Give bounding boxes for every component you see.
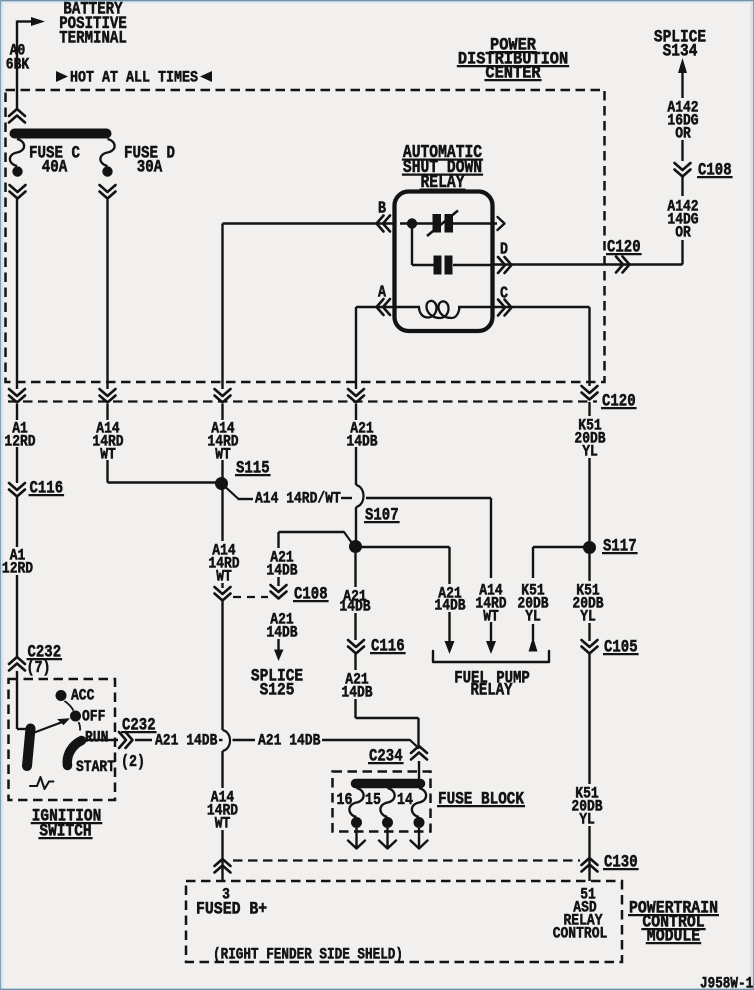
relay contact 2 — [412, 256, 493, 275]
label A21 14DB above corner — [341, 671, 372, 701]
wire A14 to PCM — [221, 830, 223, 881]
label A21 14DB main — [346, 420, 377, 450]
svg-text:TERMINAL: TERMINAL — [59, 28, 127, 48]
svg-text:(2): (2) — [121, 752, 145, 772]
fuel pump relay — [433, 651, 549, 700]
label A142 14DG OR — [667, 198, 698, 241]
relay pin D — [498, 242, 512, 273]
label A14 14RD WT col3 — [207, 420, 238, 463]
wire to S115 dot — [221, 460, 223, 478]
svg-text:14: 14 — [397, 790, 413, 810]
svg-text:A21 14DB: A21 14DB — [155, 732, 218, 749]
svg-text:14DB: 14DB — [266, 624, 297, 641]
wire K51 to S117 — [588, 458, 590, 541]
label A21 14DB run2 — [258, 732, 321, 749]
label K51 20DB YL upper — [574, 417, 605, 460]
bus bar — [15, 129, 107, 139]
splice S107 — [349, 505, 400, 553]
ignition switch OFF contact — [70, 708, 105, 730]
connector C232 (7) — [9, 642, 62, 677]
net label HOT AT ALL TIMES — [56, 70, 212, 87]
svg-text:HOT AT ALL TIMES: HOT AT ALL TIMES — [70, 70, 198, 87]
wire A14 fuse D label gap — [106, 404, 108, 420]
svg-text:YL: YL — [525, 608, 541, 625]
label A14 14RD WT below S115 — [208, 542, 239, 585]
connector chevron A14 relay B at C120 — [215, 389, 231, 403]
splice S134 arrow — [654, 27, 706, 73]
wire A21 corner to C234 — [356, 654, 419, 747]
splice S117 — [583, 536, 638, 556]
connector chevron A1 at C120 — [9, 389, 25, 403]
ignition switch detent spring — [30, 777, 54, 789]
svg-text:J958W-1: J958W-1 — [700, 975, 753, 990]
label A14 14RD WT col2 — [92, 420, 123, 463]
svg-text:A21 14DB: A21 14DB — [258, 732, 321, 749]
wire A0 6BK from battery — [16, 21, 18, 110]
wire K51 to C105 — [588, 623, 590, 641]
wire S107 left branch — [279, 532, 353, 548]
svg-text:RUN: RUN — [85, 729, 108, 746]
wire C234 to fuse block — [418, 761, 420, 780]
connector C116 — [9, 478, 64, 498]
wire A21 to hop — [355, 447, 357, 485]
label K51 20DB YL lower — [571, 785, 602, 828]
svg-text:(RIGHT FENDER SIDE SHELD): (RIGHT FENDER SIDE SHELD) — [213, 946, 403, 963]
label A21 14DB fp — [434, 585, 465, 614]
svg-text:14DB: 14DB — [346, 433, 377, 450]
wire A1 12RD upper — [16, 404, 18, 420]
label A21 14DB s125 upper — [266, 549, 297, 579]
label K51 20DB YL mid — [572, 582, 603, 625]
ignition switch RUN contact — [85, 729, 108, 746]
splice S125 arrow — [251, 639, 303, 700]
wire A14 below hop — [221, 751, 223, 788]
svg-text:OR: OR — [675, 125, 691, 142]
wire A142 14DG OR — [681, 177, 683, 265]
label J958W-1 — [700, 975, 753, 990]
wire A14 14RD/WT continues — [341, 497, 491, 499]
ignition switch START bar — [67, 741, 115, 777]
label A21 14DB run1 — [155, 732, 218, 749]
label A21 14DB s125 lower — [266, 611, 297, 641]
wire below C116 — [354, 613, 356, 640]
fuse D 30A — [100, 139, 176, 199]
svg-text:FUSED B+: FUSED B+ — [196, 899, 267, 919]
connector C108 chevron left — [215, 587, 231, 601]
connector C232 (2) — [119, 715, 157, 771]
connector chevron A14 into PCM — [215, 859, 231, 873]
connector C108 dashed link — [233, 596, 268, 598]
svg-text:40A: 40A — [42, 157, 68, 177]
wire relay B label gap — [221, 404, 223, 420]
label A142 16DG OR — [667, 99, 698, 142]
wire S107 to fuel pump relay — [361, 547, 450, 584]
label A14 14RD WT lower — [207, 789, 238, 832]
svg-text:ACC: ACC — [71, 687, 95, 704]
wire A142 16DG OR — [681, 73, 683, 161]
label RIGHT FENDER SIDE SHELD — [213, 946, 403, 963]
wire K51 upper gap — [588, 402, 590, 416]
wire fuse D to S115 — [108, 460, 217, 483]
svg-text:RELAY: RELAY — [471, 680, 513, 700]
wire S117 left branch — [533, 547, 590, 578]
label A0 6BK — [6, 42, 30, 73]
wire relay pin C to C120 — [493, 307, 590, 386]
wire A21 label gap — [355, 404, 357, 420]
relay pin A — [377, 285, 391, 315]
wire A14 branch down — [490, 498, 492, 578]
svg-text:30A: 30A — [137, 157, 163, 177]
label A1 12RD lower — [2, 547, 33, 577]
label A14 14RD WT fp — [475, 582, 506, 625]
wire fuse D down — [106, 198, 108, 389]
ignition switch rotor bar — [27, 729, 31, 767]
wire K51 to C130 — [588, 826, 590, 881]
arrow K51 from fuel pump relay — [529, 624, 538, 652]
wire A1 below C116 — [16, 497, 18, 547]
svg-text:S134: S134 — [663, 41, 698, 61]
svg-text:14DB: 14DB — [341, 684, 372, 701]
ground arrow fuse 15 — [379, 828, 396, 849]
wire A14 14RD/WT branch — [227, 488, 254, 499]
svg-text:15: 15 — [365, 790, 381, 810]
ignition switch ACC contact — [56, 687, 95, 710]
connector C234 — [368, 746, 427, 766]
wire to C108 s125 — [277, 577, 279, 586]
svg-text:12RD: 12RD — [4, 433, 35, 450]
wire K51 long — [588, 654, 590, 784]
wire A1 to C116 — [16, 447, 18, 483]
svg-text:START: START — [76, 759, 115, 776]
svg-text:A14 14RD/WT: A14 14RD/WT — [255, 490, 341, 507]
connector chevron A14 fuse D at C120 — [100, 389, 116, 403]
svg-text:OR: OR — [675, 224, 691, 241]
pin 3 FUSED B+ — [196, 886, 267, 919]
wire to C108 — [221, 583, 223, 588]
powertrain control module box — [186, 881, 622, 962]
svg-text:OFF: OFF — [82, 708, 105, 725]
wire relay pin D to C120 right — [493, 263, 683, 265]
wire S117 down — [588, 554, 590, 581]
hop over A14 branch — [356, 485, 364, 507]
fuse 14 — [397, 788, 426, 828]
svg-text:14DB: 14DB — [266, 562, 297, 579]
label IGNITION SWITCH — [31, 806, 103, 841]
wire run to C234 — [322, 740, 419, 748]
fuse C 40A — [10, 139, 81, 199]
hop over A21 run wire — [223, 730, 231, 751]
connector C130 — [582, 852, 639, 872]
svg-text:6BK: 6BK — [6, 56, 30, 73]
connector C108 — [271, 584, 329, 604]
splice S115 — [215, 458, 271, 490]
label A1 12RD — [4, 420, 35, 450]
ignition switch wiper arrow — [33, 718, 70, 733]
fuse block box — [333, 772, 431, 832]
connector row C120 dashed line — [8, 391, 637, 411]
wire fuse C to C120 boundary — [16, 198, 18, 389]
connector chevron K51 at C120 — [582, 386, 598, 400]
arrow A14 into fuel pump relay — [486, 622, 496, 654]
svg-text:(7): (7) — [27, 658, 51, 678]
wire S107 down — [354, 553, 356, 587]
wire A21 to S107 — [355, 507, 357, 541]
label A14 14RD/WT — [255, 490, 341, 507]
relay ASD automatic shut down — [395, 142, 493, 331]
fuse 16 — [337, 788, 364, 828]
label POWERTRAIN CONTROL MODULE — [628, 898, 719, 946]
connector chevron battery feed — [9, 109, 25, 123]
wire PDC to relay pin A — [356, 307, 394, 389]
label POWER DISTRIBUTION CENTER — [457, 35, 569, 83]
label FUSE BLOCK — [437, 789, 525, 809]
svg-text:CONTROL: CONTROL — [553, 925, 608, 942]
wire PDC to relay pin B — [223, 224, 395, 390]
label K51 20DB YL fp — [517, 582, 548, 625]
arrow A21 into fuel pump relay — [445, 612, 455, 654]
wire A1 to C232 — [16, 575, 18, 658]
power distribution center box — [6, 90, 605, 382]
connector C108 right — [675, 160, 733, 180]
connector C105 — [582, 637, 639, 657]
node battery positive terminal — [17, 0, 127, 48]
relay coil — [395, 301, 493, 318]
fuse block bus bar — [356, 779, 421, 789]
relay pin B — [377, 201, 391, 232]
wire S115 down — [221, 489, 223, 541]
wire RUN contact out — [80, 739, 118, 741]
ignition switch box — [9, 679, 116, 800]
relay contact 1 (with throw slash) — [427, 211, 505, 237]
label A21 14DB below S107 — [339, 588, 370, 615]
wire run mid — [219, 739, 255, 741]
connector C116 lower — [348, 636, 406, 656]
connector row C130 dashed line — [233, 859, 580, 861]
ground arrow fuse 14 — [411, 828, 428, 849]
svg-text:S125: S125 — [260, 680, 295, 700]
svg-text:YL: YL — [579, 811, 595, 828]
wire run to label — [135, 739, 152, 741]
relay junction node — [400, 218, 433, 265]
ignition switch common feed — [17, 671, 30, 729]
connector chevron A21 relay A at C120 — [348, 389, 364, 403]
svg-text:YL: YL — [580, 608, 596, 625]
wire A14 down to hop — [221, 601, 223, 730]
relay pin C — [498, 286, 512, 316]
connector C120 on pin D wire — [606, 237, 642, 272]
fuse 15 — [365, 788, 395, 828]
ground arrow fuse 16 — [348, 828, 365, 849]
pin 51 ASD RELAY CONTROL — [553, 886, 608, 942]
svg-text:WT: WT — [216, 568, 232, 585]
